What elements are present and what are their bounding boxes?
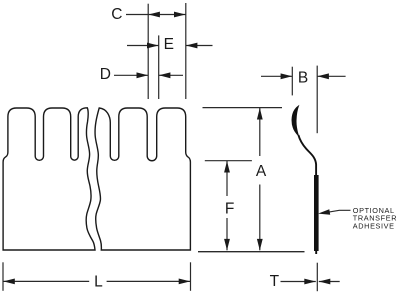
dimension T left leader	[281, 281, 316, 283]
dimension E left leader	[127, 45, 159, 47]
arrowhead T left (points right)	[304, 279, 316, 285]
svg-text:C: C	[111, 6, 122, 23]
dimension L line right segment	[107, 280, 191, 282]
dimension D right leader	[159, 74, 183, 76]
B left extension line	[291, 67, 293, 96]
profile bottom extension line	[198, 251, 305, 253]
arrowhead A bottom (points down)	[257, 239, 263, 251]
comb outline left piece (plan view)	[3, 108, 95, 250]
svg-text:T: T	[270, 273, 280, 290]
svg-text:E: E	[164, 36, 174, 53]
arrowhead T right (points left)	[319, 279, 331, 285]
arrowhead F bottom (points down)	[224, 239, 230, 251]
extension line for D/E (slot4 right edge)	[158, 35, 160, 99]
adhesive strip band	[314, 175, 319, 251]
adhesive label leader and arrowhead	[322, 210, 351, 213]
arrowhead L left	[3, 279, 15, 285]
dimension A line upper segment	[259, 108, 261, 156]
arrowhead D left (points right)	[137, 72, 149, 78]
dimension F line lower segment	[226, 218, 228, 250]
arrowhead D right (points left)	[159, 72, 171, 78]
arrowhead C right	[174, 12, 186, 18]
arrowhead C left	[148, 12, 160, 18]
profile F extension line	[205, 160, 252, 162]
arrowhead F top (points up)	[224, 161, 230, 173]
arrowhead B left (points right)	[281, 73, 293, 79]
extension line for C/E right (finger5 right edge)	[185, 3, 187, 99]
arrowhead B right (points left)	[317, 73, 329, 79]
svg-text:B: B	[298, 69, 308, 86]
T extension line	[316, 263, 318, 292]
dimension A line lower segment	[259, 185, 261, 251]
side profile: curled finger tip (crescent)	[292, 106, 299, 136]
arrowhead L right	[179, 279, 191, 285]
side profile: strip S-curve and body	[298, 135, 316, 254]
svg-text:F: F	[225, 201, 234, 218]
L left extension line	[2, 262, 4, 291]
dimension C line	[126, 14, 186, 16]
dimension F line upper segment	[226, 161, 228, 196]
dimension E right leader	[186, 45, 213, 47]
dimension T right leader	[319, 281, 340, 283]
profile top extension line	[203, 107, 283, 109]
svg-text:D: D	[100, 66, 111, 83]
dimension D left leader	[114, 74, 148, 76]
arrowhead E right (points left)	[186, 43, 198, 49]
arrowhead E left (points right)	[147, 43, 159, 49]
dimension B left leader	[261, 75, 292, 77]
B right extension line	[316, 66, 318, 134]
dimension B right leader	[317, 75, 345, 77]
svg-text:ADHESIVE: ADHESIVE	[353, 222, 395, 231]
arrowhead A top (points up)	[257, 108, 263, 120]
comb outline right piece with break (plan view)	[95, 108, 190, 250]
L right extension line	[190, 262, 192, 291]
extension line for C/D left (slot4 left edge)	[147, 4, 149, 99]
svg-text:L: L	[94, 274, 103, 291]
svg-text:A: A	[256, 163, 267, 180]
dimension L line left segment	[3, 280, 89, 282]
